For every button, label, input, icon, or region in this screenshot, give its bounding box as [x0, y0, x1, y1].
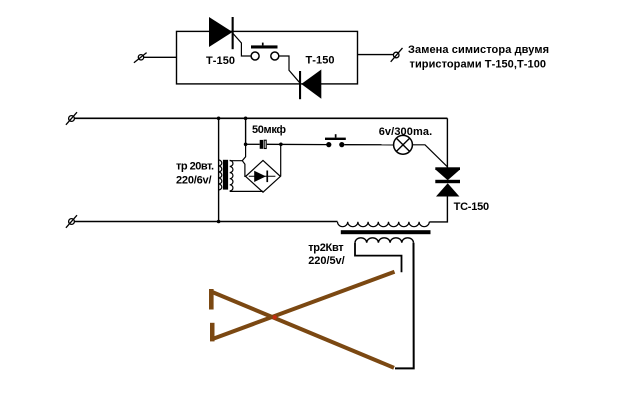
wire top mains [74, 117, 447, 119]
svg-text:Т-150: Т-150 [306, 55, 335, 67]
node dot (cap left) [244, 143, 248, 147]
svg-text:Т-150: Т-150 [206, 55, 235, 67]
wire to bridge right corner [280, 144, 282, 176]
thyristor V2 T-150 (bottom, anode right) [299, 70, 321, 100]
wire triac bottom to primary L1 [429, 197, 447, 222]
svg-text:220/5v/: 220/5v/ [308, 255, 345, 267]
terminal J1 (left of thyristor box) [134, 53, 147, 63]
svg-text:6v/300ma.: 6v/300ma. [379, 126, 433, 138]
svg-text:тр2Квт: тр2Квт [308, 242, 344, 254]
thyristor V1 T-150 (top, anode left) [209, 17, 234, 49]
svg-text:Замена симистора двумя: Замена симистора двумя [408, 44, 549, 56]
wire cap branch vertical [245, 118, 247, 144]
bridge rectifier VD1 [246, 160, 281, 192]
wire lamp to triac gate [412, 145, 447, 167]
node dot (cap branch tap) [244, 117, 248, 121]
gate wire V1 to button [233, 34, 251, 57]
svg-text:тр 20вт.: тр 20вт. [176, 160, 214, 172]
transformer T1 core [223, 160, 228, 190]
weld spot (red) [273, 315, 277, 319]
wire box to terminal J4 [358, 54, 394, 56]
wire primary vertical [218, 118, 220, 221]
terminal J3 (mains bottom) [66, 215, 77, 228]
electrode holder handle upper [209, 289, 214, 310]
terminal J2 (mains top) [66, 112, 77, 125]
triac VS1 TC-150 [435, 167, 460, 196]
electrode arm 2 [213, 272, 395, 339]
transformer T2 secondary winding [355, 238, 414, 243]
transformer T2 core [341, 230, 431, 234]
gate wire button to V2 [279, 56, 300, 83]
switch S1 (closed contacts) [325, 134, 346, 147]
wire secondary left lead to upper electrode [355, 243, 402, 272]
node dot (primary bottom) [217, 220, 221, 224]
electrode holder handle lower [210, 323, 215, 342]
svg-text:тиристорами Т-150,Т-100: тиристорами Т-150,Т-100 [410, 59, 547, 71]
svg-text:50мкф: 50мкф [252, 124, 286, 136]
push button SB1 [251, 43, 279, 60]
svg-text:220/6v/: 220/6v/ [176, 174, 212, 186]
lamp HL1 6v/300ma [394, 135, 413, 154]
node dot (primary tap) [217, 117, 221, 121]
wire secondary right lead to lower electrode [395, 243, 414, 369]
wire bottom mains [74, 221, 337, 223]
wire mains to triac top [446, 118, 448, 167]
wire secondary top lead [230, 144, 246, 160]
transformer T2 primary winding [338, 222, 430, 227]
wire node to bridge left [242, 161, 245, 177]
electrode arm 1 [211, 292, 394, 368]
capacitor C1 50mkf [246, 140, 329, 149]
terminal J4 (right) [391, 48, 403, 62]
transformer T1 primary winding [219, 160, 222, 190]
transformer T1 secondary winding [230, 160, 233, 191]
box around thyristor pair [177, 31, 358, 84]
svg-text:ТС-150: ТС-150 [454, 201, 490, 213]
wire switch to lamp [344, 144, 393, 146]
wire secondary bottom lead [230, 190, 263, 192]
wire J1 to box [144, 56, 177, 58]
node dot (cap right) [279, 143, 283, 147]
